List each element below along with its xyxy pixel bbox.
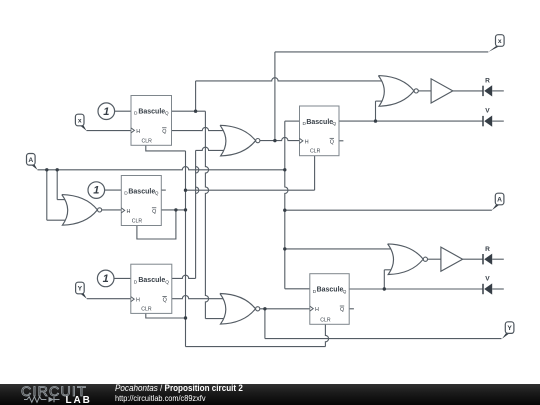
wire Y output drop: [264, 309, 266, 339]
wire FF2 Q riser to NOR2: [375, 101, 377, 121]
wire NOR5 output to FF3 H: [102, 209, 122, 211]
wire FF3 CLR feedback: [137, 210, 176, 239]
wire clock1 to FF1 D: [115, 110, 131, 112]
svg-text:R: R: [485, 246, 490, 253]
wire FF2 Q to V LED: [339, 120, 483, 122]
buffer B1: [431, 79, 453, 103]
wire FF1 Qbar to NOR1 upper input: [172, 127, 227, 130]
wire A net to A output flag: [285, 209, 492, 211]
wire FF5 Qbar stub: [349, 308, 354, 310]
wire X output riser: [274, 52, 276, 141]
wire Y input to FF4 H: [87, 298, 131, 300]
wire NOR4 output to FF5 H: [260, 308, 310, 310]
wire into NOR5 upper input: [57, 199, 68, 201]
nor gate G2: [378, 76, 418, 107]
wire NOR3 output to buffer: [428, 258, 441, 260]
svg-text:CLR: CLR: [142, 138, 153, 144]
node FF4 CLR junction: [184, 316, 187, 319]
wire V LED out: [492, 120, 504, 122]
svg-text:Q: Q: [165, 111, 169, 117]
svg-text:H: H: [305, 139, 309, 145]
wire FF5 CLR: [325, 324, 328, 346]
flag X output: [488, 35, 504, 52]
wire V LED2 out: [492, 288, 504, 290]
wire A to NOR5 upper: [56, 170, 58, 200]
wire clock3 to FF4 D: [114, 277, 131, 279]
svg-text:Q: Q: [165, 279, 169, 285]
svg-text:Bascule: Bascule: [138, 108, 165, 115]
svg-text:x: x: [78, 118, 82, 125]
svg-text:V: V: [485, 276, 490, 283]
svg-text:Q: Q: [340, 307, 344, 313]
clock source V1: [98, 103, 115, 120]
wire FF2 Qbar stub: [339, 140, 343, 142]
node FF1 Q junction: [194, 110, 197, 113]
LED D2 green: [483, 108, 492, 127]
node NOR4 output junction: [263, 307, 266, 310]
LED D3 red: [483, 246, 492, 265]
nor gate G3: [388, 244, 428, 275]
wire FF1 Q riser to top bus: [195, 81, 197, 111]
flip-flop U2 Bascule: [300, 106, 340, 156]
nor gate G1: [220, 125, 260, 156]
node CLR-FF2 junction: [184, 189, 187, 192]
svg-text:Q: Q: [162, 129, 166, 135]
wire FF1 Q output: [172, 110, 206, 112]
wire FF5 Q riser to NOR3: [383, 270, 385, 289]
flag A input: [27, 154, 38, 170]
wire FF1 Q long drop to NOR4: [205, 111, 208, 318]
svg-text:V: V: [485, 108, 490, 115]
node A net junction: [283, 168, 286, 171]
wire A net to NOR3 upper input: [285, 248, 394, 250]
wire FF3 Qbar to CLR bus: [161, 209, 185, 211]
wire FF2 CLR: [314, 156, 316, 191]
buffer B2: [441, 247, 463, 271]
svg-text:H: H: [315, 307, 319, 313]
flag Y input: [76, 282, 87, 299]
wire CLR bus to FF2 CLR: [186, 189, 315, 191]
wire to X output flag: [275, 51, 488, 53]
wire riser to NOR1 lower input: [196, 147, 227, 150]
svg-text:Q: Q: [155, 191, 159, 197]
node A line junction 1: [45, 168, 48, 171]
node NOR1 output junction: [273, 139, 276, 142]
svg-text:Bascule: Bascule: [128, 188, 155, 195]
svg-text:1: 1: [93, 185, 99, 197]
svg-text:H: H: [136, 129, 140, 135]
svg-text:Bascule: Bascule: [306, 119, 333, 126]
node A output junction: [283, 209, 286, 212]
flag Y output: [502, 322, 514, 339]
svg-text:CLR: CLR: [132, 219, 143, 225]
wire CLR bus to FF5 CLR: [186, 346, 326, 348]
wire NOR2 output to buffer: [419, 90, 432, 92]
wire R LED2 out: [492, 258, 504, 260]
svg-text:CLR: CLR: [141, 306, 152, 312]
node FF2 Q junction: [374, 119, 377, 122]
wire FF2 D stub: [285, 120, 300, 122]
wire X input to FF1 H: [87, 130, 132, 132]
nor gate G4: [220, 294, 260, 325]
wire A net to FF5 D: [285, 288, 310, 290]
svg-text:H: H: [136, 298, 140, 304]
wire drop to NOR4 lower input: [205, 318, 226, 320]
svg-text:D: D: [134, 279, 138, 285]
flag X input: [75, 114, 86, 131]
wire FF4 Qbar to NOR4 upper input: [172, 296, 227, 299]
svg-text:CLR: CLR: [320, 317, 331, 323]
flag A output: [492, 193, 504, 210]
LED D1 red: [483, 78, 492, 97]
wire buffer to R LED: [453, 90, 483, 92]
wire riser to NOR3 lower input: [384, 269, 393, 271]
svg-text:CLR: CLR: [310, 149, 321, 155]
wire buffer2 to R LED: [463, 258, 483, 260]
svg-text:R: R: [485, 78, 490, 85]
wire FF1 Q bus to NOR2 upper input: [196, 78, 385, 81]
wire into NOR5 lower input: [47, 219, 68, 221]
wire CLR bus vertical: [185, 151, 187, 347]
svg-text:Bascule: Bascule: [317, 287, 344, 294]
svg-text:1: 1: [103, 273, 109, 285]
flip-flop U3 Bascule: [121, 176, 161, 226]
wire to Y output flag: [265, 338, 502, 340]
svg-text:Q: Q: [152, 209, 156, 215]
flip-flop U5 Bascule: [310, 274, 349, 325]
svg-text:A: A: [28, 157, 33, 164]
svg-text:Bascule: Bascule: [138, 277, 165, 284]
LED D4 green: [483, 276, 492, 295]
wire FF3 Q stub: [161, 189, 166, 191]
node NOR3 upper junction: [283, 247, 286, 250]
wire riser to NOR2 lower input: [376, 100, 385, 102]
wire FF1 CLR down-right: [146, 145, 186, 151]
node FF3 Qbar feedback junction: [174, 208, 177, 211]
wire clock2 to FF3 D: [105, 189, 122, 191]
wire NOR1 feed riser: [196, 150, 199, 278]
nor gate G5: [62, 195, 102, 226]
wire NOR1 output to FF2 H: [260, 137, 300, 140]
svg-text:Y: Y: [507, 325, 512, 332]
node FF5 Q junction: [383, 287, 386, 290]
wire FF5 Q to V LED: [349, 288, 483, 290]
wire A net vertical: [285, 121, 288, 289]
wire FF4 Q to NOR1 feed: [172, 275, 196, 278]
svg-text:1: 1: [103, 106, 109, 118]
svg-text:H: H: [127, 209, 131, 215]
svg-text:Q: Q: [163, 298, 167, 304]
wire FF4 CLR: [146, 313, 186, 318]
svg-text:x: x: [498, 38, 502, 45]
svg-text:Q: Q: [332, 121, 336, 127]
wire R LED out: [492, 90, 504, 92]
svg-text:Q: Q: [343, 289, 347, 295]
svg-text:A: A: [497, 197, 502, 204]
node A line junction 2: [56, 168, 59, 171]
flip-flop U1 Bascule: [131, 96, 172, 146]
svg-text:Y: Y: [78, 286, 83, 293]
svg-text:Q: Q: [330, 140, 334, 146]
clock source V3: [97, 270, 114, 287]
flip-flop U4 Bascule: [131, 264, 172, 313]
wire A input line: [38, 167, 285, 170]
CircuitLab logo: [21, 384, 93, 405]
clock source V2: [88, 182, 105, 199]
node FF3 Qbar-CLR bus junction: [184, 208, 187, 211]
wire A to NOR5 lower: [46, 170, 48, 220]
